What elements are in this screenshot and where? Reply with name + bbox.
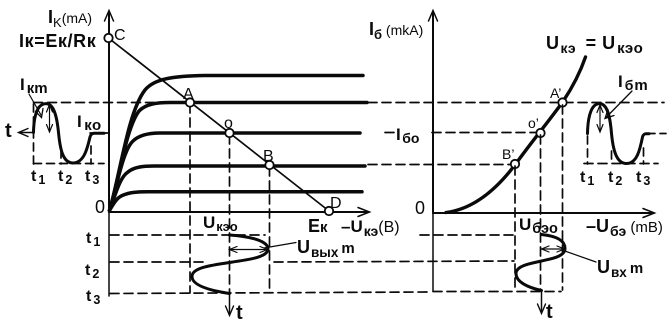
vertical dashed at B' xyxy=(514,166,516,290)
dashed row t2 xyxy=(110,261,514,262)
svg-text:0: 0 xyxy=(415,198,425,218)
Ikm amplitude double arrow xyxy=(47,105,53,133)
Ikm pointer line xyxy=(29,94,43,118)
svg-text:Eк: Eк xyxy=(308,216,328,236)
point C xyxy=(104,34,112,42)
right x-axis -Ube xyxy=(433,209,655,218)
point o' xyxy=(536,129,544,137)
vertical dashed at o xyxy=(229,135,231,294)
dashed level A-A' gap horizontal xyxy=(368,102,664,104)
dashed under right wave bottom xyxy=(584,163,658,165)
Uvyh pointer line xyxy=(264,243,296,249)
vertical dashed at A' xyxy=(562,105,564,290)
output curve 1 xyxy=(110,76,364,211)
point B' xyxy=(511,160,519,168)
output curve 2 xyxy=(110,103,368,211)
Uvyh amplitude double arrow xyxy=(230,247,268,253)
right y-axis Ib xyxy=(429,11,438,214)
left axis extension below xyxy=(108,212,110,296)
input characteristic curve xyxy=(446,57,586,213)
svg-text:A: A xyxy=(183,86,194,103)
svg-text:t: t xyxy=(546,301,553,323)
output curve 4 xyxy=(110,166,366,211)
load line C-D xyxy=(109,38,330,211)
vertical dashed at A xyxy=(189,104,191,293)
svg-text:A’: A’ xyxy=(550,85,561,101)
t arrow bottom right xyxy=(538,291,546,314)
Ibm pointer line xyxy=(605,91,632,119)
right wave dashed ticks xyxy=(588,136,644,164)
t arrow bottom left xyxy=(226,295,234,316)
svg-text:o: o xyxy=(224,115,233,132)
svg-text:o’: o’ xyxy=(528,115,539,131)
point A' xyxy=(558,98,566,106)
vertical dashed at o' xyxy=(540,135,542,290)
Uvh amplitude double arrow xyxy=(542,246,565,252)
vertical dashed at B xyxy=(269,167,271,293)
svg-text:C: C xyxy=(114,27,126,44)
svg-text:0: 0 xyxy=(95,197,105,217)
point D xyxy=(325,207,333,215)
svg-text:B’: B’ xyxy=(502,146,514,162)
left wave dashed box xyxy=(34,104,105,164)
output curve 5 xyxy=(110,192,363,211)
left x-axis -Uke xyxy=(109,208,370,217)
output curve 3 xyxy=(110,133,361,211)
t axis arrow left wave xyxy=(19,129,34,137)
dashed Ibo row segments xyxy=(385,133,666,134)
dashed row t3 xyxy=(110,292,561,294)
Uvh pointer line xyxy=(562,250,596,262)
point o xyxy=(225,129,233,137)
svg-text:B: B xyxy=(263,148,274,165)
Ib waveform right xyxy=(588,104,650,164)
dashed level B-B' gap horizontal xyxy=(368,164,513,166)
dashed row t1 xyxy=(110,234,513,236)
dashed level A horizontal xyxy=(34,102,191,104)
svg-text:t: t xyxy=(5,120,12,142)
point A xyxy=(186,98,194,106)
Uvh waveform bottom right xyxy=(516,235,565,291)
Ibm amplitude double arrow xyxy=(597,105,603,132)
svg-text:D: D xyxy=(330,195,342,212)
right axis extension below xyxy=(432,213,434,291)
svg-text:t: t xyxy=(236,302,243,324)
Uvyh waveform bottom left xyxy=(192,235,268,294)
point B xyxy=(265,161,273,169)
svg-text:Iк=Eк/Rк: Iк=Eк/Rк xyxy=(19,31,97,51)
dashed Iko short segment xyxy=(90,132,108,134)
Ik waveform left xyxy=(34,104,105,163)
left y-axis Ik xyxy=(105,11,114,213)
